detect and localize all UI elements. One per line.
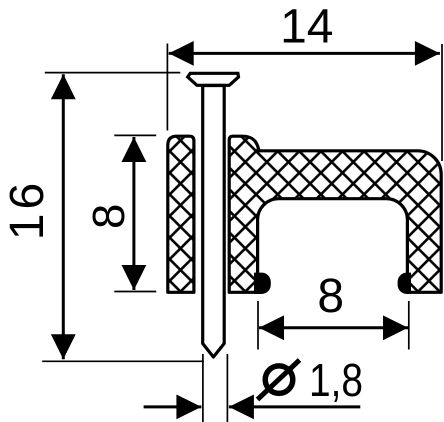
dim 8 horizontal: extension line right bbox=[408, 301, 410, 350]
nail head bbox=[188, 73, 239, 85]
dim 8 vertical: tick top bbox=[114, 134, 156, 136]
svg-text:16: 16 bbox=[1, 179, 54, 240]
dim dia 1,8: label diameter symbol circle bbox=[265, 366, 293, 394]
dim 14: arrow left bbox=[169, 41, 194, 66]
dim 8 vertical: arrow up bbox=[122, 137, 147, 162]
dim 14: extension line left bbox=[166, 44, 168, 131]
dim dia 1,8: extension line right bbox=[226, 354, 228, 422]
dim 8 horizontal: extension line left bbox=[257, 301, 259, 350]
svg-text:1,8: 1,8 bbox=[309, 354, 363, 406]
dim 14: dimension line bbox=[169, 52, 440, 55]
dim 16: arrow down bbox=[51, 334, 76, 359]
dim dia 1,8: leader right bbox=[229, 405, 360, 408]
dim 14: extension line right bbox=[441, 44, 443, 161]
dim 8 horizontal: dimension line bbox=[259, 326, 408, 329]
dim dia 1,8: leader left bbox=[144, 405, 202, 408]
dim 16: extension line top bbox=[45, 72, 181, 74]
cable bump left bbox=[254, 273, 271, 294]
dim 8 horizontal: arrow right bbox=[383, 315, 408, 340]
dim 8 vertical: tick bottom bbox=[114, 291, 156, 293]
dim 8 vertical: dimension line bbox=[132, 137, 135, 290]
dim dia 1,8: arrow right-pointing bbox=[176, 395, 201, 420]
svg-text:14: 14 bbox=[280, 1, 333, 54]
clip body: left column (crosshatched) bbox=[168, 136, 194, 292]
dim 8 vertical: arrow down bbox=[122, 265, 147, 290]
dim 16: arrow up bbox=[51, 74, 76, 99]
dim dia 1,8: extension line left bbox=[202, 354, 204, 422]
dim 16: dimension line bbox=[62, 74, 65, 359]
svg-text:8: 8 bbox=[83, 204, 134, 229]
dim dia 1,8: arrow left-pointing bbox=[229, 395, 254, 420]
dim 14: arrow right bbox=[415, 41, 440, 66]
dim 16: extension line bottom bbox=[42, 360, 204, 362]
cable bump right bbox=[398, 273, 411, 294]
nail shaft bbox=[203, 86, 225, 358]
dim dia 1,8: label diameter symbol slash bbox=[258, 360, 300, 400]
svg-text:8: 8 bbox=[317, 270, 344, 323]
dim 8 horizontal: arrow left bbox=[259, 315, 284, 340]
clip body: main body (crosshatched) bbox=[229, 136, 441, 292]
